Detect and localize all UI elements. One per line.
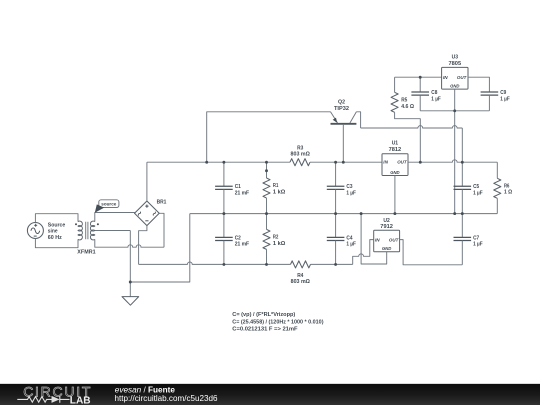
svg-text:1 µF: 1 µF [500,96,510,102]
svg-text:GND: GND [450,84,460,89]
Q2 emitter diagonal [331,112,338,123]
svg-text:R1: R1 [273,183,279,189]
Q2 collector diagonal [350,112,357,123]
svg-text:7805: 7805 [449,61,462,67]
wire U3 OUT [468,77,489,92]
wire U3 GND down to ground rail [454,111,456,214]
svg-text:R4: R4 [297,273,304,279]
svg-text:IN: IN [383,160,388,165]
svg-text:R2: R2 [273,234,278,240]
wire ground stem [129,282,131,297]
XFMR1 primary phase dot [75,223,77,225]
svg-text:1 kΩ: 1 kΩ [273,241,286,247]
junction bottom rail C2 [222,263,225,266]
footer bar [0,382,540,385]
wire bottom rail to U2 IN [353,240,374,265]
capacitor C7 plates [454,237,472,240]
C2 top lead [223,214,225,238]
junction mid rail U1GND [393,212,396,215]
R5 bottom jog to out rail [395,112,421,162]
svg-text:1 µF: 1 µF [473,191,483,197]
svg-text:C8: C8 [431,90,438,96]
resistor R1 [263,178,270,198]
svg-text:XFMR1: XFMR1 [77,249,96,255]
wire top rail left of R3 [147,161,290,163]
transformer XFMR1 primary winding [78,221,82,240]
capacitor C1 plates [215,186,233,189]
capacitor C8 plates [411,92,429,95]
junction mid rail U3GND [453,212,456,215]
wire to Q2 emitter [207,112,331,162]
wire U1 OUT rail [408,160,497,162]
svg-text:OUT: OUT [457,75,468,80]
svg-text:803 mΩ: 803 mΩ [291,279,311,285]
svg-text:U3: U3 [452,55,458,61]
svg-text:R6: R6 [504,183,510,189]
R6 top lead [496,162,498,178]
capacitor C5 plates [454,186,472,189]
XFMR1 core lines [86,222,88,239]
svg-text:7912: 7912 [380,224,393,230]
C5 top lead [461,162,463,186]
wire BR1 minus down [139,226,147,265]
junction bottom rail R2 [265,263,268,266]
C4 top lead [335,214,337,238]
svg-text:TIP32: TIP32 [334,106,349,112]
svg-text:C= (vp) / (F*RL*Vrizopp): C= (vp) / (F*RL*Vrizopp) [232,312,295,318]
Q2 base lead [342,125,344,162]
BR1 minus glyph [145,220,148,222]
Q2 collector wire [356,112,360,128]
footer logo wire with resistor and diode [17,396,69,403]
R1 terminal dot [265,169,268,172]
junction out rail R5 [419,161,422,164]
C3 top lead [335,162,337,186]
svg-text:21 mF: 21 mF [235,191,250,197]
transistor Q2 base bar [331,123,357,125]
wire XFMR1 center tap [95,230,131,232]
wire XFMR1 secondary top to BR1 [95,213,135,222]
flag tail [95,204,104,212]
capacitor C4 plates [327,237,345,240]
XFMR1 secondary phase dot [97,223,99,225]
junction top rail R1 [265,161,268,164]
capacitor C9 plates [481,92,499,95]
svg-text:R3: R3 [297,145,304,151]
C7 bottom lead [461,241,463,265]
svg-text:GND: GND [390,170,400,175]
wire U3 GND bottom [420,110,489,112]
C1 top lead [223,162,225,186]
R1 top lead [266,162,268,178]
wire bottom rail right of R4 [311,263,353,265]
svg-text:OUT: OUT [397,160,408,165]
R6 bottom lead [496,198,498,213]
V1 sine glyph [31,228,40,234]
svg-text:LAB: LAB [70,395,91,405]
svg-text:7812: 7812 [389,147,402,153]
svg-text:Source: Source [48,223,66,229]
svg-text:1 µF: 1 µF [346,242,356,248]
C1 bottom lead [223,189,225,213]
resistor R4 [291,261,311,268]
regulator U3 box [442,67,468,89]
C8 top lead [419,77,421,92]
wire ground rail drop [130,214,190,282]
wire bottom rail left of R4 [139,262,291,264]
svg-text:1 µF: 1 µF [431,96,441,102]
C8 bottom lead [419,95,421,111]
ground symbol [122,297,139,306]
junction top rail Q2 emitter [205,161,208,164]
svg-text:C= (25.4558) / (120Hz * 1000 *: C= (25.4558) / (120Hz * 1000 * 0.010) [232,319,323,325]
R2 bottom lead [266,249,268,264]
wire V1 top to XFMR1 primary [35,214,78,223]
junction top rail C1 [222,161,225,164]
voltage source V1 circle [27,223,43,239]
BR1 tilde left [138,212,142,216]
C4 bottom lead [335,241,337,265]
capacitor C2 plates [215,237,233,240]
wire U2 OUT to -12 node [400,240,463,265]
XFMR1 secondary winding [90,221,94,240]
R1 bottom lead [266,198,268,214]
svg-text:C5: C5 [473,184,480,190]
junction bottom rail C4 [334,263,337,266]
svg-text:C3: C3 [346,184,353,190]
U3 GND lead [454,89,456,111]
svg-text:4.6 Ω: 4.6 Ω [401,104,414,110]
capacitor C3 plates [327,186,345,189]
svg-text:C2: C2 [235,235,241,241]
junction mid rail U2GND [360,212,363,215]
named node flag [source] box [99,200,119,208]
svg-text:60 Hz: 60 Hz [48,235,62,241]
C9 bottom lead [488,95,490,111]
wire BR1 right corner down [159,213,164,247]
ground junction [129,281,132,284]
svg-text:C7: C7 [473,235,479,241]
svg-text:OUT: OUT [389,237,400,242]
svg-text:1 Ω: 1 Ω [504,190,513,196]
wire middle ground rail [190,213,498,215]
U1 GND lead [394,176,396,214]
junction mid rail R1R2 [265,212,268,215]
svg-text:source: source [101,202,116,207]
wire V1 bottom to XFMR1 primary [35,239,78,248]
junction mid rail C3C4 [334,212,337,215]
C2 bottom lead [223,241,225,265]
svg-text:C1: C1 [235,184,242,190]
C5 bottom lead [461,189,463,213]
svg-text:U2: U2 [383,218,389,224]
junction U3 IN C8 [419,76,422,79]
junction top rail Q2 base [342,161,345,164]
svg-text:C=0.0212131 F => 21mF: C=0.0212131 F => 21mF [232,327,298,333]
svg-text:C9: C9 [500,90,507,96]
resistor R2 [263,229,270,249]
resistor R6 [494,178,501,198]
V1 plus sign [34,224,37,227]
svg-text:IN: IN [375,237,380,242]
wire BR1 plus up [146,162,148,201]
svg-text:C4: C4 [346,235,353,241]
wire U3 IN [395,76,442,78]
svg-text:R5: R5 [401,98,408,104]
bridge rectifier BR1 diamond [135,201,160,226]
R5 top lead [394,77,396,92]
svg-text:http://circuitlab.com/c5u23d6: http://circuitlab.com/c5u23d6 [115,394,218,403]
junction out rail C5 [461,161,464,164]
R2 top lead [266,214,268,230]
svg-text:21 mF: 21 mF [235,242,250,248]
junction top rail C3 [334,161,337,164]
wire collector drop to out rail [461,128,463,162]
svg-text:IN: IN [443,75,448,80]
svg-text:Q2: Q2 [338,100,345,106]
wire center tap down to ground node [129,231,131,283]
wire top rail right of R3 [310,161,382,163]
C3 bottom lead [335,189,337,213]
footer logo diode triangle [52,396,60,403]
regulator U2 box [374,230,400,252]
svg-text:GND: GND [382,246,392,251]
wire XFMR1 secondary bottom to BR1 [95,239,164,247]
BR1 tilde right [153,212,157,216]
regulator U1 box [382,154,408,176]
V1 minus sign [34,235,37,237]
svg-text:803 mΩ: 803 mΩ [291,152,311,158]
svg-text:BR1: BR1 [157,200,167,206]
BR1 plus glyph [145,205,148,208]
wire collector to +12 node [361,126,463,128]
svg-text:sine: sine [48,229,58,235]
svg-text:1 kΩ: 1 kΩ [273,189,286,195]
resistor R3 [290,159,310,166]
svg-text:1 µF: 1 µF [346,191,356,197]
C7 top lead [461,214,463,238]
junction mid rail C1C2 [222,212,225,215]
junction mid rail C5C7 [461,212,464,215]
junction U3 GND C8C9 [453,109,456,112]
resistor R5 [391,92,398,112]
Q2 emitter arrow [333,118,337,123]
wire ground rail to U2 GND [361,214,387,264]
svg-text:U1: U1 [392,141,398,147]
svg-text:1 µF: 1 µF [473,242,483,248]
